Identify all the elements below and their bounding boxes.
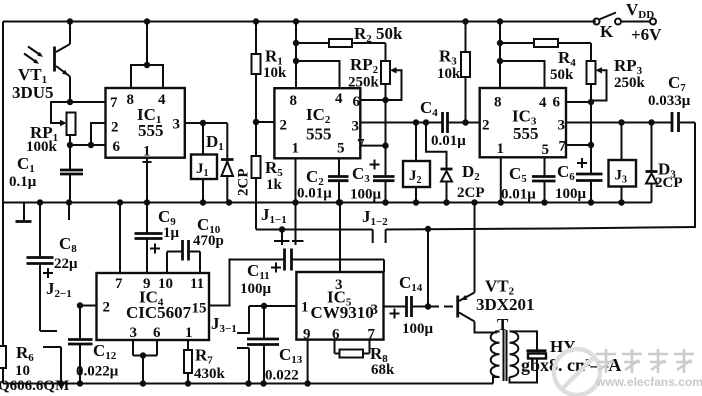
op-amp IC3 555 timer box [480,88,566,157]
capacitor C8 electrolytic [27,203,54,279]
diode D1 [221,123,234,203]
svg-text:100μ: 100μ [350,187,382,203]
svg-text:8: 8 [127,92,135,108]
resistor R7 [184,340,192,384]
op-amp IC5 CW9310 box [296,272,383,340]
node pin3 J1 tap [200,120,206,126]
pin1 stub tick [143,161,152,163]
resistor R3 [461,22,470,123]
node pins36 join [140,352,146,358]
wire ground to IC4 pin7 [119,203,121,274]
svg-text:5: 5 [337,141,345,157]
svg-text:2: 2 [280,118,288,134]
wire left border [2,22,4,384]
capacitor C11 electrolytic [271,249,384,273]
svg-text:1: 1 [185,325,193,341]
svg-text:6: 6 [153,325,161,341]
svg-text:68k: 68k [371,362,395,378]
wire IC1 8-4 top strap [131,65,163,88]
wire IC5 pin9 ground [307,340,309,384]
svg-text:7: 7 [110,95,118,111]
wire mid ground bus [3,202,652,204]
svg-text:555: 555 [306,125,332,144]
svg-text:10: 10 [158,276,173,292]
svg-text:CW9310: CW9310 [311,303,374,322]
wire IC1 pin1 to ground [146,158,148,203]
svg-text:15: 15 [192,301,207,317]
resistor R4 [500,39,591,47]
capacitor C5 [532,157,556,202]
potentiometer RP2 [381,43,402,100]
potentiometer RP1 [51,102,76,170]
potentiometer RP3 [587,43,607,102]
svg-text:10: 10 [15,363,30,379]
op-amp IC1 555 timer box [106,88,185,158]
node R4 branch [497,40,503,46]
node R3 bottom [462,119,468,125]
svg-text:2CP: 2CP [236,169,252,197]
capacitor C13 [247,306,279,384]
svg-text:www.elecfans.com: www.elecfans.com [595,375,702,389]
svg-text:250k: 250k [614,75,646,91]
relay J2 [403,123,430,203]
watermark CJK glyph blobs [596,349,694,373]
node VT1 emitter node [67,99,73,105]
wire IC4 pin2 [80,305,97,307]
wire IC5 pin1 row [249,305,296,307]
svg-text:4: 4 [158,92,166,108]
diode D3 [646,123,658,203]
wire RP1 node to IC1 pin6 [70,144,106,146]
node R2 branch [293,40,299,46]
capacitor C4 [443,112,480,133]
node IC3 pin7 C6 node [588,142,594,148]
transistor VT1 phototransistor [24,22,70,103]
node IC3 pin6 node [588,99,594,105]
svg-text:555: 555 [138,121,164,140]
capacitor C12 [68,306,93,384]
resistor R2 [296,39,386,47]
relay contact J1-1 [256,203,304,246]
resistor R5 [252,122,261,230]
svg-text:4: 4 [539,95,547,111]
node D3 tap [648,119,654,125]
svg-text:8: 8 [494,95,502,111]
wire node to IC3 pin6 [566,101,591,103]
wire rail to IC1 strap [146,22,148,66]
transistor VT2 [458,203,500,333]
svg-text:K: K [600,22,614,41]
wire IC4 pins 3 and 6 join [133,340,157,384]
svg-text:1k: 1k [266,177,283,193]
svg-text:+6V: +6V [631,25,662,44]
transformer T secondary [510,331,519,377]
relay J1 [191,123,217,203]
resistor R8 [335,340,370,358]
wire stub below C1 node [68,203,70,221]
node D2 tap [423,119,429,125]
svg-text:7: 7 [559,139,567,155]
svg-text:1: 1 [497,141,505,157]
wire IC1 pin2 hook [91,123,106,145]
svg-text:6: 6 [113,139,121,155]
node pin7 C3 node [382,142,388,148]
svg-text:8: 8 [290,93,298,109]
node R1 R5 junction [253,119,259,125]
svg-text:0.022: 0.022 [265,368,299,384]
svg-text:100k: 100k [26,139,58,155]
svg-text:470p: 470p [193,233,224,249]
wire IC5 pin3 to C14 [384,306,407,308]
wire bottom rail [3,383,493,385]
svg-text:5: 5 [542,142,550,158]
node J2 tap [413,119,419,125]
node mid rail junctions [37,199,43,205]
relay contact J2-1 [40,264,61,384]
node C14 output [425,303,431,309]
svg-text:2: 2 [103,300,111,316]
node top rail junctions [67,18,73,24]
svg-text:1: 1 [301,300,309,316]
svg-text:1: 1 [143,144,151,160]
svg-text:50k: 50k [550,67,574,83]
resistor R6 clipped at left edge [0,346,6,368]
svg-text:3DX201: 3DX201 [476,295,535,314]
svg-text:100μ: 100μ [240,281,272,297]
svg-text:2CP: 2CP [457,185,485,201]
svg-text:Q606.6QM: Q606.6QM [0,378,69,394]
wire IC2 pin1 ground [295,158,297,202]
node J3 tap [618,119,624,125]
wire IC3 pin1 ground [500,157,502,202]
probe plate stub [16,203,32,222]
wire pin6 node down to pin7 node [385,100,387,177]
capacitor C9 electrolytic [135,203,163,274]
svg-text:6: 6 [353,94,361,110]
node IC5 top pin ground tap [337,199,343,205]
node bottom rail junctions [58,380,64,386]
wire IC4 pin15 to C11 [209,260,284,306]
svg-text:11: 11 [190,276,204,292]
wire IC2 pin3 output [360,122,442,124]
wire contact bus J1 row [256,229,373,231]
svg-text:2CP: 2CP [655,175,683,191]
wire strap to pin4 [296,61,340,88]
resistor R1 [252,22,261,123]
wire top +V rail [3,21,596,23]
wire IC3 pin3 output [566,122,672,124]
capacitor C10 [167,240,200,273]
svg-text:0.01μ: 0.01μ [297,186,332,202]
svg-text:22μ: 22μ [54,256,78,272]
svg-text:1: 1 [292,141,300,157]
node J1-1 left pole tap [279,226,285,232]
svg-text:100μ: 100μ [555,186,587,202]
svg-text:R2 50k: R2 50k [354,24,403,45]
capacitor C3 electrolytic [370,160,395,203]
svg-text:10k: 10k [263,65,287,81]
node C12 tap [77,302,83,308]
svg-text:7: 7 [357,137,365,153]
svg-text:0.022μ: 0.022μ [76,364,119,380]
watermark logo circle [554,349,600,395]
relay contact J1-2 [373,230,386,244]
svg-text:6: 6 [553,95,561,111]
capacitor C7 [672,112,695,132]
capacitor C1 [60,170,83,203]
switch K [594,13,657,25]
svg-text:CIC5607: CIC5607 [126,303,192,322]
svg-text:0.1μ: 0.1μ [9,174,37,190]
wire rail drop x296 [295,22,297,89]
diode D2 [426,123,453,203]
node pin6 node [382,97,388,103]
svg-text:0.01μ: 0.01μ [431,133,466,149]
wire contact bus right segment to border [386,227,695,230]
node IC3 pin4 strap branch [497,58,503,64]
wire node to IC2 pin6 [360,99,385,101]
node strap feed [144,62,150,68]
wire IC1 pin3 output [185,122,228,124]
wire strap to IC3 pin4 [500,61,545,88]
svg-text:3: 3 [173,117,181,133]
transformer T primary [491,331,500,377]
svg-text:3: 3 [352,119,360,135]
svg-text:0.01μ: 0.01μ [501,187,536,203]
svg-text:4: 4 [335,91,343,107]
svg-text:3: 3 [558,118,566,134]
wire ground rail to IC5 top pin [339,203,341,273]
speaker HY piezo [527,351,547,359]
svg-text:3: 3 [130,325,138,341]
svg-text:7: 7 [115,276,123,292]
svg-text:2: 2 [482,118,490,134]
svg-text:6: 6 [332,327,340,343]
relay contact J3-1 [237,306,250,384]
node bus drop [425,226,431,232]
svg-text:10k: 10k [437,66,461,82]
svg-text:0.033μ: 0.033μ [648,93,691,109]
capacitor C6 electrolytic [576,158,603,203]
svg-text:555: 555 [513,124,539,143]
op-amp IC2 555 timer box [274,88,360,158]
svg-text:100μ: 100μ [402,321,434,337]
wire IC3 pin6 node down to pin7 node [590,102,592,174]
node RP1 bottom node [67,142,73,148]
capacitor C2 [328,158,349,202]
svg-text:430k: 430k [194,366,226,382]
capacitor C14 electrolytic [390,296,429,319]
op-amp IC4 CIC5607 box [97,273,210,340]
wire contact bus down to C14 node [427,229,429,307]
svg-text:3DU5: 3DU5 [12,83,54,102]
wire node to IC2 pin2 [256,121,274,123]
wire right border vertical [694,123,696,229]
svg-text:1μ: 1μ [163,225,180,241]
wire IC2 pin7 stub [360,145,385,147]
wire emitter node to IC1 pin7 [70,101,106,103]
svg-text:2: 2 [111,120,119,136]
svg-text:T: T [497,315,509,334]
wire C11 to IC5 corner [383,260,385,273]
node pin4 strap branch [293,58,299,64]
wire dashed to VT2 base [430,306,457,308]
node C13 tap [261,303,267,309]
wire primary bottom to rail [493,377,500,384]
wire secondary to HY loop [510,331,538,382]
transformer T core [504,330,507,381]
node pin2 hook junction [88,142,94,148]
wire rail drop x500 [499,22,501,89]
relay J3 [609,123,637,203]
wire IC3 pin7 stub [566,144,591,146]
